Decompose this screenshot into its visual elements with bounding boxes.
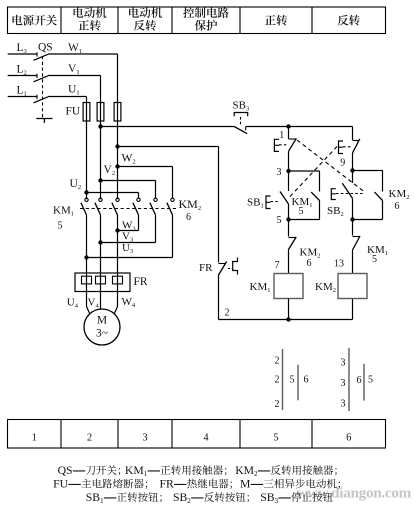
label 6 KM2 aux — [395, 201, 400, 212]
wire L2 phase input — [8, 75, 37, 77]
label node 3 — [277, 167, 282, 178]
svg-text:KM: KM — [125, 464, 144, 477]
svg-text:3: 3 — [341, 399, 346, 410]
wire control L1 rail — [101, 126, 353, 128]
header cell 反转 — [338, 15, 360, 26]
svg-text:5: 5 — [273, 433, 278, 444]
label node 1 — [279, 130, 284, 141]
thermal relay FR box — [75, 273, 130, 292]
contactor KM1 main contact x=86.5 — [81, 198, 88, 273]
node V3 — [98, 240, 102, 244]
wire U phase vertical — [86, 121, 88, 199]
switch QS linkage — [36, 56, 52, 123]
header cell 电动机反转 — [129, 7, 162, 30]
wire V1 to fuse — [48, 76, 101, 103]
contact KM1 NC interlock — [353, 220, 361, 274]
svg-text:KM1: KM1 — [53, 205, 74, 218]
header table frame — [8, 7, 386, 34]
svg-text:KM1: KM1 — [250, 281, 271, 294]
svg-text:U4: U4 — [67, 297, 79, 310]
fuse FU pole x=86.5 — [83, 103, 90, 122]
label node 5 — [277, 215, 282, 226]
wire W4 to motor — [114, 307, 117, 314]
fuse FU pole x=117.5 — [114, 103, 121, 122]
bottom zone number 1 — [32, 433, 37, 444]
svg-text:1: 1 — [144, 470, 148, 478]
label 5 KM1 aux — [299, 206, 304, 217]
svg-text:QS: QS — [38, 42, 53, 54]
svg-text:1: 1 — [32, 433, 37, 444]
wire U2 to KM2 pole1 — [87, 193, 139, 199]
legend line 3 — [86, 491, 333, 505]
wire U4 to motor — [87, 307, 90, 314]
wire node1 to node3 — [288, 151, 290, 171]
label 6 KM2 main — [186, 212, 191, 223]
svg-text:13: 13 — [334, 259, 344, 270]
svg-text:KM2: KM2 — [389, 188, 410, 201]
switch QS pole L3 — [34, 52, 49, 60]
contactor KM2 main contact x=172.5 — [167, 198, 174, 215]
svg-text:2: 2 — [275, 399, 280, 410]
svg-text:5: 5 — [372, 254, 377, 265]
svg-text:2: 2 — [254, 470, 258, 478]
label U4 — [67, 297, 79, 310]
label W3 — [122, 220, 136, 233]
svg-text:KM: KM — [235, 464, 254, 477]
node V control tap — [98, 124, 102, 128]
svg-text:6: 6 — [307, 258, 312, 269]
legend line 2 — [53, 478, 340, 491]
svg-text:6: 6 — [357, 375, 362, 386]
wire right branch top — [352, 127, 354, 140]
label KM1 aux — [292, 196, 313, 209]
FR heater element x=86.5 — [82, 273, 92, 307]
FR heater element x=117.5 — [113, 273, 123, 307]
coil KM2 — [338, 274, 367, 299]
svg-text:1: 1 — [279, 130, 284, 141]
node right mid — [350, 217, 354, 221]
node control left top — [286, 124, 290, 128]
wire-number group right — [341, 348, 374, 411]
bottom zone number 2 — [87, 433, 92, 444]
svg-text:5: 5 — [368, 375, 373, 386]
svg-text:L3: L3 — [17, 42, 27, 55]
label L1 — [17, 85, 27, 98]
contactor KM1 main contact x=117.5 — [112, 198, 119, 273]
wire control bottom rail — [219, 275, 353, 320]
svg-text:FR: FR — [134, 276, 148, 288]
svg-text:QS: QS — [58, 464, 73, 477]
label QS — [38, 42, 53, 54]
switch QS pole L2 — [34, 74, 49, 82]
bottom zone table — [8, 420, 386, 449]
wire V phase vertical — [100, 121, 102, 199]
svg-text:5: 5 — [290, 375, 295, 386]
svg-text:4: 4 — [203, 433, 209, 444]
wire node9 — [352, 153, 354, 171]
wire-number group left — [275, 349, 309, 410]
label node 9 — [340, 158, 345, 169]
svg-text:V4: V4 — [88, 297, 100, 310]
label V4 — [88, 297, 100, 310]
svg-text:www.diangon.com: www.diangon.com — [297, 485, 412, 502]
wire L3 phase input — [8, 53, 37, 55]
linkage SB2 diagonal — [297, 140, 364, 192]
node W3 — [115, 228, 119, 232]
svg-text:6: 6 — [186, 212, 191, 223]
label 5 KM1 interlock — [372, 254, 377, 265]
svg-text:SB: SB — [86, 491, 101, 504]
svg-text:6: 6 — [346, 433, 351, 444]
coil KM1 — [274, 274, 303, 320]
contact KM2 aux NO — [353, 171, 383, 220]
svg-text:2: 2 — [275, 375, 280, 386]
label 5 KM1 main — [58, 221, 63, 232]
svg-text:FR: FR — [199, 262, 213, 274]
node 5 — [286, 217, 290, 221]
wire KM2 pole3 to U3 — [87, 215, 173, 258]
label W2 — [122, 153, 136, 166]
svg-text:SB3: SB3 — [233, 100, 250, 113]
label 3~ motor — [96, 328, 108, 340]
svg-text:U3: U3 — [122, 242, 133, 255]
svg-text:9: 9 — [340, 158, 345, 169]
svg-text:5: 5 — [58, 221, 63, 232]
svg-text:V2: V2 — [104, 164, 116, 177]
label SB1 — [247, 197, 264, 210]
label node 7 — [275, 260, 280, 271]
svg-text:2: 2 — [187, 497, 191, 505]
header cell 正转 — [265, 15, 287, 26]
switch QS pole L1 — [34, 95, 49, 103]
svg-text:KM1: KM1 — [367, 244, 388, 257]
motor M — [84, 309, 120, 345]
node W2 tap — [115, 164, 119, 168]
label L3 — [17, 42, 27, 55]
contact KM1 aux NO — [289, 171, 320, 220]
bottom zone number 6 — [346, 433, 351, 444]
node 9 — [350, 168, 354, 172]
node U3 — [84, 255, 88, 259]
wire W to FR contact — [118, 147, 219, 263]
svg-text:6: 6 — [395, 201, 400, 212]
svg-text:2: 2 — [225, 308, 230, 319]
wire V4 to motor — [100, 307, 102, 310]
svg-text:W4: W4 — [122, 296, 136, 309]
svg-text:FU: FU — [53, 478, 69, 491]
header cell 电源开关 — [13, 15, 57, 26]
svg-text:L2: L2 — [17, 64, 27, 77]
svg-text:FU: FU — [66, 106, 81, 118]
fuse FU pole x=100.5 — [97, 103, 104, 122]
svg-text:SB: SB — [260, 491, 275, 504]
label W1 — [68, 42, 82, 55]
svg-text:SB1: SB1 — [247, 197, 264, 210]
label KM2 interlock — [300, 247, 321, 260]
label SB3 — [233, 100, 250, 113]
label SB2 — [327, 205, 344, 218]
button SB1 NO contact — [266, 171, 289, 220]
label U1 — [68, 84, 80, 97]
label 6 KM2 interlock — [307, 258, 312, 269]
label V2 — [104, 164, 116, 177]
label FR main — [134, 276, 148, 288]
svg-text:M: M — [97, 315, 107, 327]
svg-text:KM2: KM2 — [315, 281, 336, 294]
label KM1 coil — [250, 281, 271, 294]
button SB2 NO contact — [331, 171, 362, 220]
linkage SB1 diagonal — [290, 147, 337, 197]
node bottom — [286, 317, 290, 321]
svg-text:W1: W1 — [68, 42, 82, 55]
header cell 电动机正转 — [74, 7, 107, 30]
svg-text:W2: W2 — [122, 153, 136, 166]
node 3 — [286, 169, 290, 173]
label node 2 — [225, 308, 230, 319]
watermark — [297, 485, 412, 502]
contactor KM2 main contact x=138.5 — [133, 198, 140, 215]
label V1 — [68, 63, 80, 76]
wire W1 to fuse — [48, 54, 118, 103]
wire W phase vertical — [117, 121, 119, 199]
svg-text:3: 3 — [275, 497, 279, 505]
svg-text:2: 2 — [275, 356, 280, 367]
header cell 控制电路保护 — [183, 7, 228, 30]
svg-text:3: 3 — [341, 378, 346, 389]
svg-text:SB: SB — [173, 491, 188, 504]
bottom zone number 3 — [142, 433, 147, 444]
wire KM2 pole1 to W3 — [118, 215, 139, 231]
contactor KM2 main contact x=155.5 — [150, 198, 157, 215]
svg-text:5: 5 — [277, 215, 282, 226]
legend line 1 — [58, 464, 337, 478]
button SB3 — [234, 113, 248, 134]
label U2 — [70, 178, 82, 191]
label KM2 aux — [389, 188, 410, 201]
label KM1 interlock — [367, 244, 388, 257]
wire W2 to KM2 pole3 — [118, 167, 173, 199]
wire L1 phase input — [8, 96, 37, 98]
wire V2 to KM2 pole2 — [101, 181, 156, 199]
label V3 — [122, 231, 133, 244]
svg-text:5: 5 — [299, 206, 304, 217]
contactor KM1 main contact x=100.5 — [95, 198, 102, 273]
button SB1 NC contact node9 — [339, 139, 360, 154]
svg-text:U2: U2 — [70, 178, 82, 191]
label M motor — [97, 315, 107, 327]
contact FR NC — [219, 258, 238, 276]
svg-text:3: 3 — [277, 167, 282, 178]
svg-text:1: 1 — [100, 497, 104, 505]
svg-text:SB2: SB2 — [327, 205, 344, 218]
svg-text:KM2: KM2 — [179, 197, 202, 212]
svg-text:FR: FR — [160, 478, 175, 491]
svg-text:3: 3 — [142, 433, 147, 444]
label FR contact — [199, 262, 213, 274]
node U2 tap — [84, 190, 88, 194]
label KM2 coil — [315, 281, 336, 294]
wire left branch top — [288, 127, 290, 139]
svg-text:3~: 3~ — [96, 328, 108, 340]
svg-text:7: 7 — [275, 260, 280, 271]
node V2 tap — [98, 178, 102, 182]
node W control return tap — [115, 144, 119, 148]
FR heater element x=100.5 — [96, 273, 106, 307]
bottom zone number 5 — [273, 433, 278, 444]
label KM2 main — [179, 197, 202, 212]
button SB2 NC contact node1 — [274, 138, 296, 151]
label KM1 main — [53, 205, 74, 218]
svg-text:M: M — [240, 478, 251, 491]
label W4 — [122, 296, 136, 309]
label U3 — [122, 242, 133, 255]
label node 13 — [334, 259, 344, 270]
wire U1 to fuse — [48, 97, 87, 103]
svg-text:2: 2 — [87, 433, 92, 444]
svg-text:6: 6 — [304, 375, 309, 386]
svg-text:V1: V1 — [68, 63, 80, 76]
linkage KM banks — [80, 208, 176, 210]
label L2 — [17, 64, 27, 77]
wire KM2 pole2 to V3 — [101, 215, 156, 243]
svg-text:L1: L1 — [17, 85, 27, 98]
svg-text:3: 3 — [341, 358, 346, 369]
contact KM2 NC interlock — [289, 220, 297, 274]
svg-text:U1: U1 — [68, 84, 80, 97]
label FU — [66, 106, 81, 118]
bottom zone number 4 — [203, 433, 209, 444]
